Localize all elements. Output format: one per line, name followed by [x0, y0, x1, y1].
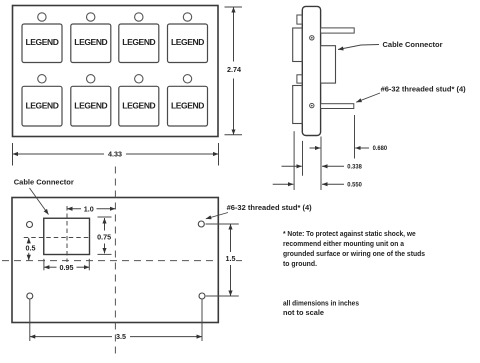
side view lower switch tab [297, 75, 302, 83]
extension line D (stud tip) [354, 115, 356, 159]
side view lower threaded stud [321, 104, 354, 109]
svg-text:1.5: 1.5 [226, 256, 236, 263]
cutout horizontal centerline (dashed) [24, 237, 92, 239]
leader arrow to cable connector [338, 45, 379, 50]
switch button S8 [168, 86, 208, 126]
svg-text:2.74: 2.74 [227, 67, 241, 74]
dimension 0.550 right arrow [322, 183, 344, 185]
indicator lamp L4 [183, 13, 191, 21]
svg-text:LEGEND: LEGEND [122, 100, 155, 110]
dimension 2.74 lower arrow line [233, 79, 235, 135]
svg-text:0.338: 0.338 [347, 165, 362, 171]
svg-text:LEGEND: LEGEND [25, 37, 58, 47]
indicator lamp L7 [135, 75, 143, 83]
svg-text:LEGEND: LEGEND [74, 100, 107, 110]
side view upper switch tab [297, 15, 302, 24]
side view cable connector body [321, 46, 336, 83]
switch button S3 [119, 24, 159, 63]
dimension 0.5 upper arrow [28, 238, 30, 244]
svg-text:Cable Connector: Cable Connector [14, 178, 74, 187]
note text [283, 229, 425, 268]
panel vertical centerline (dashed) [114, 167, 116, 357]
leader arrow to cutout [30, 188, 49, 215]
dimension 0.338 left arrow [282, 165, 302, 167]
dimension 0.95 right tick [88, 259, 90, 271]
svg-text:0.5: 0.5 [26, 246, 36, 253]
svg-text:1.0: 1.0 [84, 206, 94, 213]
svg-text:0.680: 0.680 [373, 146, 388, 152]
cable connector cutout [44, 218, 90, 254]
dimension 0.75 bottom tick [98, 253, 112, 255]
dimension 1.5 bottom tick [206, 295, 239, 297]
extension line A (switch body rear) [293, 131, 295, 190]
extension line B (plate front face) [302, 141, 304, 176]
dimension 2.74 bottom tick [225, 134, 243, 136]
dimension 0.95 left tick [43, 259, 45, 271]
rear panel outline [12, 198, 218, 323]
cutout vertical centerline (dashed) [66, 206, 68, 262]
svg-text:not to scale: not to scale [283, 308, 324, 317]
dimension 1.5 top tick [206, 223, 239, 225]
svg-text:#6-32 threaded stud* (4): #6-32 threaded stud* (4) [381, 85, 467, 94]
side view lower screw head [310, 103, 314, 107]
dimension 2.74 upper arrow line [233, 7, 235, 62]
dimension 4.33 right tick [218, 143, 220, 166]
svg-text:LEGEND: LEGEND [25, 100, 58, 110]
mounting hole top-left [27, 222, 33, 228]
dimension 1.5 upper arrow [230, 224, 232, 252]
svg-text:LEGEND: LEGEND [74, 37, 107, 47]
dimension 0.5 lower arrow [28, 253, 30, 260]
indicator lamp L6 [87, 75, 95, 83]
dimension 0.75 lower arrow [104, 244, 106, 254]
leader arrow to mounting hole [206, 213, 228, 219]
dimension 1.5 lower arrow [230, 265, 232, 296]
switch button S7 [119, 86, 159, 126]
side view upper screw head [310, 36, 314, 40]
svg-text:LEGEND: LEGEND [171, 37, 204, 47]
side view lower switch body [293, 86, 303, 124]
dimension 0.95 left arrow [44, 266, 57, 268]
side view upper threaded stud [321, 28, 355, 33]
mounting hole bottom-left [27, 293, 33, 299]
dimension 4.33 left arrow line [13, 153, 105, 155]
dimension 0.680 left arrow [310, 147, 321, 149]
indicator lamp L3 [135, 13, 143, 21]
dimension 1.0 left arrow [67, 208, 81, 210]
dimension 3.5 right arrow [130, 336, 202, 338]
switch button S5 [22, 86, 62, 126]
svg-text:0.550: 0.550 [347, 182, 362, 188]
dimension 2.74 top tick [225, 6, 243, 8]
svg-text:recommend either mounting unit: recommend either mounting unit on a [283, 239, 405, 248]
svg-text:* Note: To protect against sta: * Note: To protect against static shock,… [283, 229, 416, 238]
svg-text:grounded surface or wiring one: grounded surface or wiring one of the st… [283, 249, 425, 258]
svg-text:0.75: 0.75 [97, 235, 111, 242]
dimension 0.338 right arrow [322, 165, 344, 167]
indicator lamp L2 [87, 13, 95, 21]
svg-text:#6-32 threaded stud* (4): #6-32 threaded stud* (4) [227, 203, 313, 212]
dimension 1.0 right arrow [97, 208, 116, 210]
leader arrow to threaded stud [356, 93, 380, 102]
dimension 0.680 right arrow [355, 147, 369, 149]
panel horizontal centerline (dashed) [2, 260, 214, 262]
dimension 4.33 left tick [12, 143, 14, 166]
svg-text:3.5: 3.5 [116, 334, 126, 341]
svg-text:LEGEND: LEGEND [122, 37, 155, 47]
switch button S4 [168, 24, 208, 63]
mounting hole top-right [198, 221, 204, 227]
svg-text:all dimensions in inches: all dimensions in inches [283, 299, 359, 308]
indicator lamp L8 [183, 75, 191, 83]
svg-text:0.95: 0.95 [60, 265, 74, 272]
extension line C (plate rear face) [320, 137, 322, 191]
dimension 0.75 upper arrow [104, 218, 106, 231]
side view upper switch body [293, 28, 303, 62]
dimension 0.95 right arrow [77, 266, 90, 268]
switch button S2 [71, 24, 111, 63]
switch button S6 [71, 86, 111, 126]
switch button S1 [22, 24, 62, 63]
indicator lamp L1 [38, 13, 46, 21]
svg-text:Cable Connector: Cable Connector [383, 40, 443, 49]
dimension 3.5 left extension line [29, 300, 31, 342]
svg-text:to ground.: to ground. [283, 259, 317, 268]
dimension 0.550 left arrow [273, 183, 294, 185]
svg-text:LEGEND: LEGEND [171, 100, 204, 110]
indicator lamp L5 [38, 75, 46, 83]
dimension 3.5 left arrow [30, 336, 112, 338]
dimension 4.33 right arrow line [126, 153, 219, 155]
dimension 0.75 top tick [98, 216, 112, 218]
side view mounting plate [302, 6, 320, 135]
svg-text:4.33: 4.33 [108, 152, 122, 159]
front panel outline [13, 6, 219, 137]
footnote all dimensions in inches [283, 299, 359, 318]
mounting hole bottom-right [199, 293, 205, 299]
dimension 3.5 right extension line [201, 300, 203, 342]
